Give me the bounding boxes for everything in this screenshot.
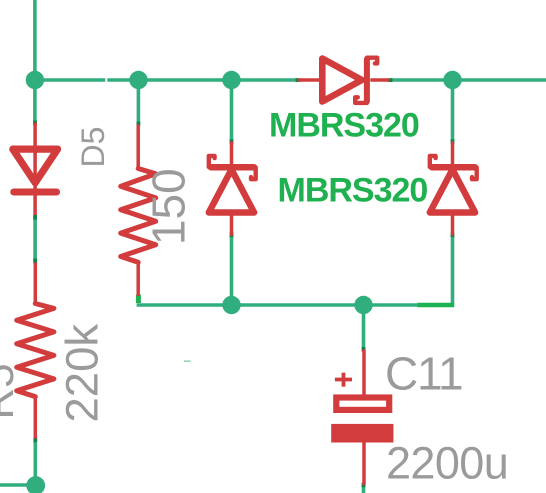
junction dot bottom rail at cap column (354, 296, 372, 314)
schottky diode middle: right hook (251, 167, 256, 179)
junction dot top at 150 column (129, 71, 147, 89)
pin-end dark dot middle schottky top (230, 139, 234, 144)
schottky diode right: top pin through bar (451, 142, 455, 170)
schottky diode top: top hook (367, 58, 377, 64)
wire: vertical at resistor 150 column (junction to pin) (137, 80, 141, 123)
capacitor C11: plus sign (335, 373, 352, 387)
wire: middle schottky bottom to bottom rail (230, 235, 234, 305)
svg-text:220k: 220k (57, 324, 108, 423)
schottky diode middle: triangle (209, 170, 254, 213)
wire: bright green stub at 150 resistor bottom corner (136, 295, 141, 303)
schottky diode top: cathode bar (364, 59, 370, 101)
pin-end dark dot right schottky bottom (451, 233, 455, 238)
diode D5 (left column): pin through symbol (33, 123, 37, 216)
schottky diode top: right pin (370, 78, 389, 82)
schottky diode middle: bottom pin (230, 213, 234, 235)
schottky diode middle: cathode bar (211, 164, 254, 171)
schottky diode middle: top pin through bar (230, 142, 234, 170)
schottky diode right: bottom pin (451, 213, 455, 235)
pin-end dark dot left diode bottom (33, 215, 37, 220)
wire: cap column junction down to cap pin (362, 305, 366, 349)
schottky diode right: triangle (430, 170, 475, 213)
junction dot top-right (443, 71, 461, 89)
junction dot top at middle schottky (222, 71, 240, 89)
stray green dash artifact (184, 360, 191, 362)
schottky diode right: right hook (472, 167, 477, 179)
wire: top horizontal rail right of diode to right edge (391, 78, 546, 82)
pin-end dark dot top diode right (388, 78, 393, 82)
resistor 150 pin bottom (136, 262, 140, 296)
pin-end dark dot cap bottom (362, 483, 366, 488)
wire: bottom horizontal rail (137, 303, 453, 307)
schottky diode middle: left hook (209, 156, 215, 167)
junction dot top-left (26, 71, 44, 89)
diode D5 triangle (13, 149, 58, 183)
svg-text:MBRS320: MBRS320 (278, 171, 428, 209)
pin-end dark dot 220k top (33, 259, 37, 264)
schottky diode top (horizontal): left pin (298, 78, 323, 82)
capacitor C11: bottom pin (362, 443, 366, 486)
schottky diode top: bottom hook (355, 97, 367, 103)
resistor 150 pin top (136, 125, 140, 169)
svg-text:MBRS320: MBRS320 (269, 107, 419, 145)
pin-end dark dot 220k bottom (33, 438, 37, 443)
svg-text:150: 150 (142, 168, 194, 245)
wire: right schottky bottom to bottom rail corner (451, 235, 455, 307)
wire: top-left vertical drop (33, 0, 37, 123)
wire: bright green overlay segment bottom-right (417, 303, 454, 308)
junction dot bottom rail at middle schottky (222, 296, 240, 314)
resistor 220k zigzag (17, 304, 54, 397)
capacitor C11: top plate (hollow) (336, 398, 389, 410)
pin-end dark dot cap top (362, 347, 366, 352)
capacitor C11: bottom plate (solid) (331, 424, 393, 443)
wire: vertical at right schottky column top (451, 80, 455, 141)
schottky diode right: cathode bar (432, 164, 475, 171)
diode D5 cathode bar (14, 189, 57, 196)
wire: left column below 220k to bottom junction (33, 439, 37, 493)
wire segment gap artifact on top rail (105, 78, 107, 83)
schottky diode top: triangle (322, 59, 362, 102)
schottky diode right: left hook (430, 156, 436, 167)
wire: top horizontal rail left of diode D-top (35, 78, 297, 82)
svg-text:R5: R5 (0, 363, 23, 419)
pin-end dark dot top diode left (296, 78, 301, 82)
pin-end dark dot middle schottky bottom (230, 233, 234, 238)
wire: cap bottom lead green to bottom edge (362, 485, 366, 493)
resistor 220k pin bottom (34, 397, 38, 439)
capacitor C11: top pin (362, 349, 366, 397)
svg-text:D5: D5 (75, 127, 111, 168)
pin-end dark dot right schottky top (451, 139, 455, 144)
svg-text:2200u: 2200u (386, 438, 508, 489)
pin-end dark dot left diode top (33, 121, 37, 126)
resistor 220k pin top (34, 263, 38, 304)
resistor 150 zigzag (121, 169, 156, 263)
svg-text:C11: C11 (385, 348, 462, 400)
wire: bottom-left horizontal to edge (0, 483, 36, 487)
wire: left column between diode and resistor 220k (33, 216, 37, 262)
pin-end dark dot 150 top (137, 122, 141, 127)
wire: vertical at middle schottky column top (230, 80, 234, 141)
junction dot bottom-left (26, 476, 45, 493)
